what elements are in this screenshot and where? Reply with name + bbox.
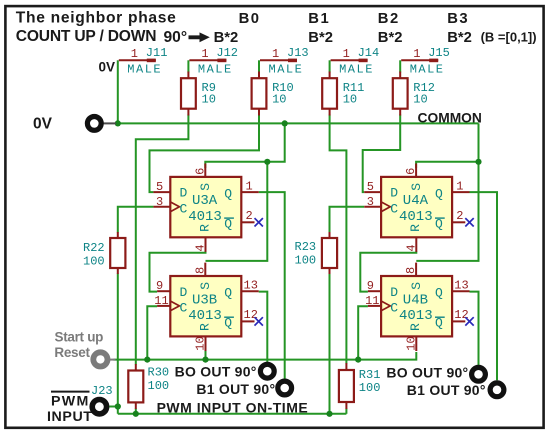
svg-text:R31: R31 [359, 368, 381, 382]
wire bus corner down through S to U4B pin8 line [416, 123, 478, 261]
wire startup reset line [114, 352, 417, 360]
svg-text:(B =[0,1]): (B =[0,1]) [481, 30, 537, 45]
svg-text:B1 OUT 90°: B1 OUT 90° [407, 382, 486, 398]
svg-text:D: D [180, 186, 188, 201]
svg-text:1: 1 [272, 47, 279, 61]
junction S line T left [264, 159, 270, 165]
connector ring Start up Reset [93, 352, 107, 366]
connector J15 [401, 46, 450, 77]
svg-text:J23: J23 [91, 384, 113, 398]
svg-text:1: 1 [131, 47, 138, 61]
svg-text:Q: Q [224, 187, 232, 202]
no-connect X on U3B pin 12 [255, 317, 263, 325]
overline of PWM [51, 391, 90, 393]
svg-text:10: 10 [343, 93, 357, 107]
connector J14 [331, 46, 380, 77]
svg-text:100: 100 [83, 255, 105, 269]
wire R22 bottom down to PWM node [117, 274, 119, 414]
svg-text:B1 OUT 90°: B1 OUT 90° [196, 381, 275, 397]
connector J13 [260, 46, 309, 77]
svg-text:10: 10 [405, 336, 419, 350]
svg-text:C: C [180, 300, 188, 315]
svg-text:J11: J11 [146, 46, 168, 60]
svg-text:U4B: U4B [403, 292, 428, 308]
junction bus S riser left [282, 120, 288, 126]
svg-text:4013: 4013 [399, 209, 433, 225]
svg-text:13: 13 [244, 278, 258, 292]
svg-text:INPUT: INPUT [47, 409, 93, 425]
svg-text:1: 1 [343, 47, 350, 61]
wire S T-drop to U3B pin8 line [206, 162, 268, 261]
junction rail R23 column [326, 411, 332, 417]
svg-text:R: R [197, 224, 212, 232]
svg-text:10: 10 [272, 93, 286, 107]
svg-text:B*2: B*2 [378, 30, 403, 46]
flip-flop U4B (4013) [365, 263, 474, 351]
svg-text:Q: Q [435, 286, 443, 301]
wire R10 bottom to U3A pin5 [150, 115, 260, 193]
svg-text:J14: J14 [358, 46, 380, 60]
svg-text:R: R [408, 224, 423, 232]
wire J11 drop to bus [117, 60, 119, 123]
svg-text:D: D [390, 285, 398, 300]
svg-text:S: S [198, 282, 213, 290]
wire R9 top to J12 [187, 60, 189, 72]
svg-text:R22: R22 [83, 241, 105, 255]
svg-text:2: 2 [246, 209, 253, 223]
svg-text:11: 11 [365, 294, 379, 308]
svg-text:5: 5 [156, 180, 163, 194]
wire R12 bottom to U4A pin5 [363, 115, 401, 193]
wire U4B pin11 feed from reset line [358, 306, 368, 359]
junction reset pin10 left [202, 357, 208, 363]
wire U3B pin13 Q down to BO OUT left [259, 292, 268, 363]
resistor R23 [295, 232, 338, 274]
svg-text:C: C [180, 201, 188, 216]
svg-text:Start up: Start up [55, 330, 104, 345]
svg-text:MALE: MALE [410, 63, 445, 77]
resistor R31 [339, 363, 381, 409]
svg-text:9: 9 [156, 279, 163, 293]
svg-text:10: 10 [194, 336, 208, 350]
flip-flop U3B (4013) [154, 263, 263, 351]
svg-text:3: 3 [367, 195, 374, 209]
resistor R11 [322, 72, 364, 116]
svg-text:C: C [390, 300, 398, 315]
wire U3B pin10 to reset line [205, 351, 207, 360]
svg-text:4013: 4013 [188, 308, 222, 324]
svg-text:PWM: PWM [51, 394, 90, 410]
svg-text:U3B: U3B [192, 292, 217, 308]
svg-text:S: S [409, 282, 424, 290]
junction bus J11 [115, 120, 121, 126]
svg-text:B2: B2 [378, 11, 400, 27]
wire R10 top to J13 [258, 60, 260, 72]
resistor R22 [83, 232, 125, 274]
svg-text:11: 11 [154, 294, 168, 308]
wire R12 top to J15 [399, 60, 401, 72]
wire PWM bottom rail [118, 413, 347, 415]
resistor R9 [181, 72, 216, 116]
svg-text:5: 5 [367, 180, 374, 194]
svg-text:Reset: Reset [54, 345, 90, 360]
svg-text:100: 100 [295, 254, 317, 268]
no-connect X on U4A pin 2 [465, 218, 473, 226]
svg-text:Q: Q [224, 286, 232, 301]
wire U3A pin1 Q down to B1 OUT left [259, 192, 285, 379]
wire U4A pin4 to U4B pin9 [360, 252, 416, 292]
resistor R30 [128, 364, 169, 409]
svg-text:BO OUT 90°: BO OUT 90° [386, 365, 468, 381]
svg-text:1: 1 [456, 179, 463, 193]
wire U4A pin3 to R23 column [330, 207, 365, 233]
svg-text:MALE: MALE [269, 63, 304, 77]
svg-text:B1: B1 [308, 11, 330, 27]
svg-text:MALE: MALE [127, 63, 162, 77]
svg-text:1: 1 [201, 47, 208, 61]
resistor R10 [252, 72, 294, 116]
svg-text:13: 13 [454, 278, 468, 292]
svg-text:100: 100 [148, 379, 170, 393]
connector J11 [119, 46, 168, 77]
svg-text:12: 12 [454, 308, 468, 322]
resistor R12 [393, 72, 435, 116]
wire U3A pin4 to U3B pin9 [150, 252, 206, 292]
junction reset pin11 left [144, 357, 150, 363]
no-connect X on U3A pin 2 [255, 218, 263, 226]
svg-text:4: 4 [194, 244, 208, 251]
svg-text:4013: 4013 [399, 308, 433, 324]
svg-text:3: 3 [156, 195, 163, 209]
svg-text:B3: B3 [447, 11, 469, 27]
wire U4A pin6 S-line right [416, 162, 478, 168]
wire U3A pin6 S-line to bus [205, 123, 284, 168]
svg-text:R30: R30 [148, 366, 170, 380]
svg-text:U3A: U3A [192, 193, 218, 209]
wire R9 bottom hook down to R30 [136, 115, 189, 365]
svg-text:MALE: MALE [198, 63, 233, 77]
svg-text:8: 8 [404, 267, 418, 274]
svg-text:1: 1 [413, 47, 420, 61]
junction rail R30 [133, 411, 139, 417]
connector ring 0V [87, 117, 101, 131]
svg-text:90°: 90° [164, 29, 188, 46]
svg-text:100: 100 [359, 381, 381, 395]
svg-text:S: S [198, 183, 213, 191]
svg-text:6: 6 [404, 168, 418, 175]
stub 0V ring to junction [104, 122, 117, 124]
svg-text:2: 2 [456, 209, 463, 223]
wire U3A pin3 to R22 column [118, 207, 154, 233]
wire PWM connector stub [109, 406, 118, 408]
no-connect X on U4B pin 12 [465, 317, 473, 325]
svg-text:1: 1 [246, 179, 253, 193]
wire R31 bottom to pwm rail [345, 409, 347, 414]
svg-text:B*2: B*2 [447, 30, 472, 46]
svg-text:C: C [390, 201, 398, 216]
wire U3B pin11 feed from reset line [147, 306, 157, 359]
wire U4B pin13 Q down to BO OUT right [470, 292, 479, 365]
wire R23 bottom down to pwm rail [329, 274, 331, 414]
svg-text:R: R [408, 323, 423, 331]
svg-text:8: 8 [193, 267, 207, 274]
junction S line T right [475, 159, 481, 165]
svg-text:S: S [409, 183, 424, 191]
connector ring PWM INPUT J23 [92, 400, 106, 414]
wire R30 bottom to pwm rail [135, 409, 137, 414]
svg-text:J12: J12 [216, 46, 238, 60]
wire R11 bottom hook down to R31 [330, 115, 347, 364]
arrow symbol [189, 32, 210, 42]
connector ring BO OUT right [472, 367, 486, 381]
flip-flop U4A (4013) [364, 164, 474, 252]
svg-text:4: 4 [405, 244, 419, 251]
svg-text:D: D [180, 285, 188, 300]
svg-text:Q: Q [435, 187, 443, 202]
svg-text:BO OUT 90°: BO OUT 90° [175, 364, 257, 380]
connector J12 [189, 46, 238, 77]
svg-text:0V: 0V [33, 115, 53, 132]
svg-text:4013: 4013 [188, 209, 222, 225]
svg-text:10: 10 [202, 93, 216, 107]
svg-text:J15: J15 [428, 46, 450, 60]
stub Reset ring [110, 359, 116, 361]
svg-text:U4A: U4A [403, 193, 429, 209]
wire 0V COMMON bus [118, 122, 479, 124]
svg-text:10: 10 [413, 93, 427, 107]
junction PWM node [115, 403, 121, 409]
svg-text:D: D [390, 186, 398, 201]
svg-text:COUNT UP / DOWN: COUNT UP / DOWN [16, 28, 157, 45]
svg-text:J13: J13 [287, 46, 309, 60]
connector ring B1 OUT left [278, 381, 292, 395]
svg-text:B*2: B*2 [308, 30, 333, 46]
svg-text:B*2: B*2 [214, 30, 239, 46]
svg-text:12: 12 [244, 308, 258, 322]
wire R11 top to J14 [329, 60, 331, 72]
svg-text:R: R [197, 323, 212, 331]
connector ring B1 OUT right [490, 383, 504, 397]
svg-text:The neighbor phase: The neighbor phase [16, 10, 177, 27]
svg-text:B0: B0 [239, 11, 261, 27]
svg-text:R23: R23 [295, 240, 317, 254]
wire U4A pin1 Q down to B1 OUT right [470, 192, 498, 380]
svg-text:6: 6 [193, 168, 207, 175]
junction reset pin11 right [355, 357, 361, 363]
svg-text:0V: 0V [99, 60, 116, 75]
flip-flop U3A (4013) [153, 164, 263, 252]
svg-text:9: 9 [367, 279, 374, 293]
svg-text:MALE: MALE [339, 63, 374, 77]
connector ring BO OUT left [260, 364, 274, 378]
